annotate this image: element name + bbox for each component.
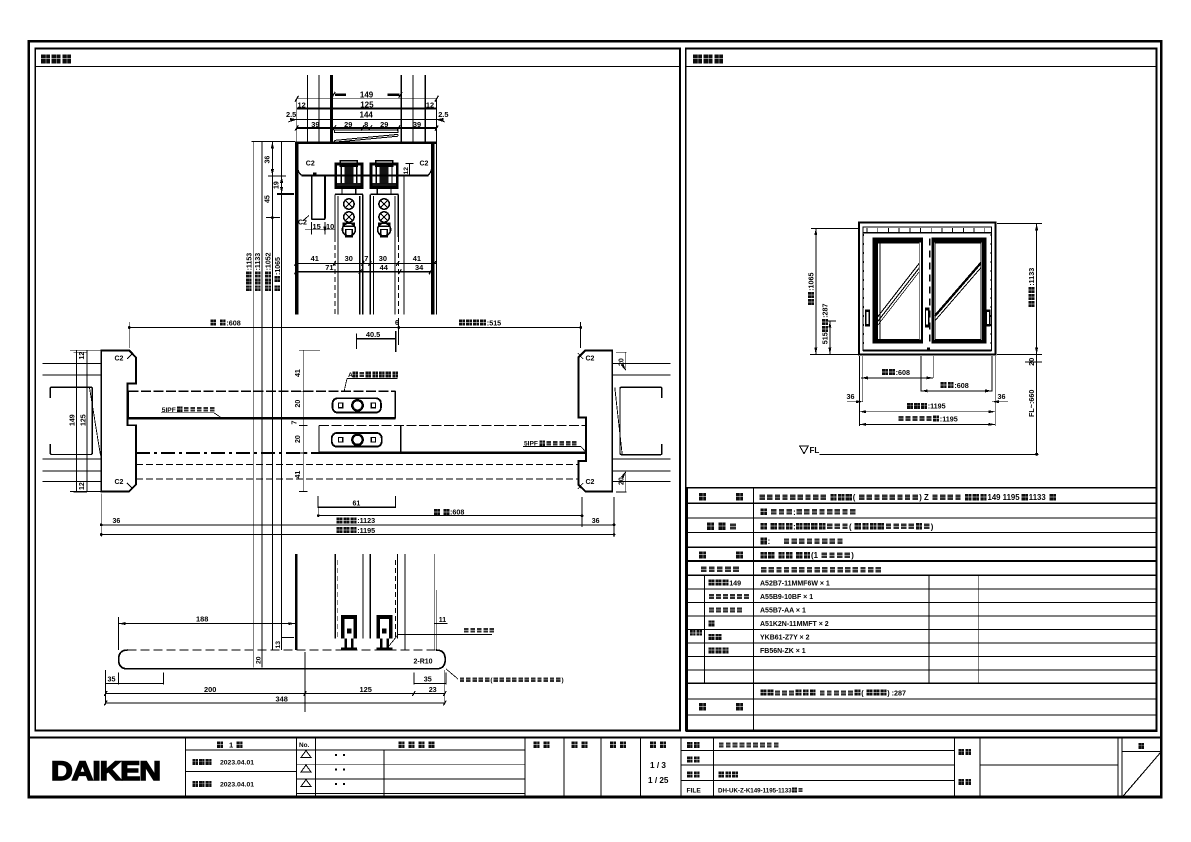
elevation dim 窓高:1065 line [815, 228, 817, 354]
counter extension verticals [105, 670, 107, 705]
elevation top rail band line [863, 232, 991, 234]
right wall lines [612, 363, 670, 365]
svg-text:12: 12 [403, 167, 410, 175]
title block 改訂日 [192, 781, 198, 787]
height dim 19 [277, 193, 294, 195]
left stud diagonal [90, 388, 101, 456]
svg-text:A51K2N-11MMFT × 2: A51K2N-11MMFT × 2 [760, 621, 829, 628]
svg-text:FB56N-ZK × 1: FB56N-ZK × 1 [760, 648, 806, 655]
head box left wall [295, 142, 299, 315]
elevation bottom extension verticals [858, 356, 860, 426]
elevation right door glass [935, 243, 981, 340]
svg-text:FL: FL [810, 446, 820, 455]
svg-text:515: 515 [821, 332, 830, 344]
svg-text:36: 36 [998, 392, 1006, 401]
svg-text:12: 12 [79, 482, 86, 490]
elevation dim 枠外高:1133 line [1036, 224, 1038, 355]
svg-text::: : [793, 522, 796, 531]
title block 名称 [687, 742, 693, 748]
svg-text:2.5: 2.5 [286, 110, 296, 119]
head section bottom dim line 1 [296, 262, 437, 264]
svg-text:35: 35 [424, 674, 432, 683]
svg-text:125: 125 [360, 685, 372, 694]
floor guide under door2 [376, 615, 379, 639]
svg-text:36: 36 [265, 156, 272, 164]
mid vertical dim line with 41 20 7 20 41 [302, 350, 304, 491]
svg-text:149: 149 [70, 414, 77, 426]
hanger roller assembly right [371, 164, 397, 188]
svg-text:36: 36 [847, 392, 855, 401]
spec 品番 sub rows [708, 580, 714, 586]
svg-text:200: 200 [204, 685, 216, 694]
svg-text:44: 44 [380, 263, 389, 272]
spec 備考 content [760, 690, 766, 696]
door2 edge lines [369, 194, 371, 314]
title block left rows [186, 749, 526, 751]
svg-text:348: 348 [276, 694, 288, 703]
svg-text:149 1195: 149 1195 [988, 493, 1021, 502]
svg-text:11: 11 [439, 617, 447, 624]
lower door leaf plan [319, 425, 586, 427]
spec table part-number sub column dividers [704, 575, 706, 683]
svg-text:12: 12 [79, 352, 86, 360]
right view title band line [686, 65, 1157, 67]
svg-text:30: 30 [345, 254, 353, 263]
title block 縮尺 [650, 741, 656, 747]
spec row 引手 content [761, 552, 767, 559]
svg-text:61: 61 [353, 500, 361, 507]
spec row カウンター label [701, 567, 707, 573]
title block 承認 [534, 741, 540, 747]
top dim line 1 [297, 98, 437, 100]
svg-text:FILE: FILE [687, 788, 702, 795]
svg-text:YKB61-Z7Y × 2: YKB61-Z7Y × 2 [760, 635, 810, 642]
height dimension long verticals [252, 141, 295, 143]
svg-text:A55B7-AA × 1: A55B7-AA × 1 [760, 608, 806, 615]
svg-text:2-R10: 2-R10 [414, 659, 433, 666]
elevation dim 36 left [847, 401, 863, 403]
svg-text:): ) [851, 551, 854, 560]
title block 検図 [572, 741, 578, 747]
elevation dim 扉幅:608 left door [861, 377, 933, 379]
head box inner face line right [403, 176, 405, 315]
title block 頁 [1138, 743, 1144, 749]
title block bottom thick line [29, 795, 1162, 798]
counter material label [460, 677, 464, 682]
right jamb plan section [579, 350, 613, 491]
vertical structure lines to counter [295, 554, 298, 650]
svg-text:36: 36 [592, 518, 600, 525]
title block revision triangles [301, 751, 311, 758]
svg-text::1065: :1065 [807, 273, 816, 291]
svg-text:34: 34 [415, 263, 424, 272]
svg-text:36: 36 [113, 518, 121, 525]
svg-text:A52B7-11MMF6W × 1: A52B7-11MMF6W × 1 [760, 581, 830, 588]
spec table row lines [687, 502, 1157, 504]
left view title band line [35, 65, 680, 67]
svg-text:41: 41 [311, 254, 319, 263]
svg-text:41: 41 [413, 254, 421, 263]
elevation frame bottom band [863, 349, 991, 351]
elevation left door glass [878, 243, 920, 340]
door adjuster plates with screws [337, 196, 339, 315]
top sloped furring piece [335, 134, 399, 140]
elevation meeting stile bottom mark [927, 347, 930, 350]
elevation right door glass diagonal stripe [935, 263, 981, 316]
floor guide under door1 [341, 615, 344, 639]
svg-text::1065: :1065 [275, 257, 282, 275]
svg-text::1052: :1052 [266, 252, 273, 270]
svg-text::515: :515 [487, 318, 501, 327]
title block column dividers [185, 738, 187, 797]
svg-text:19: 19 [274, 181, 281, 189]
svg-text:A55B9-10BF × 1: A55B9-10BF × 1 [760, 594, 813, 601]
right view title 正面図 [693, 55, 702, 64]
spec row 型式 content [760, 494, 765, 500]
title block header row line mid cells [525, 749, 681, 751]
svg-text:149: 149 [729, 579, 741, 588]
svg-text:188: 188 [196, 615, 208, 624]
svg-text:20: 20 [618, 477, 625, 485]
elevation dim カウンター幅:1195 [859, 423, 995, 425]
svg-text:A: A [348, 372, 353, 379]
svg-text:C2: C2 [586, 356, 595, 363]
svg-text:) :287: ) :287 [887, 689, 906, 698]
title block outer [29, 738, 1162, 797]
elevation left door glass diagonal stripe [878, 263, 919, 316]
head box ceiling line with chamfers [302, 175, 429, 177]
svg-text:71: 71 [325, 263, 333, 272]
door leaf tops in head section [335, 193, 363, 195]
top rail flat bar [335, 130, 399, 133]
head box top line [295, 142, 436, 145]
elevation FL line [820, 453, 1039, 455]
svg-text:23: 23 [429, 685, 437, 694]
height dim 36 ticks [268, 175, 286, 177]
svg-text:7: 7 [292, 421, 299, 425]
title block right rows [681, 750, 955, 752]
svg-text:C2: C2 [298, 220, 307, 227]
svg-text:): ) [562, 677, 564, 684]
title block name label divider [713, 738, 715, 797]
title block 図名 [687, 772, 693, 778]
elevation left door stiles and rails [872, 237, 877, 343]
svg-text:20: 20 [295, 435, 302, 443]
head box right wall [431, 142, 434, 315]
elevation dim 20 right [1036, 354, 1038, 362]
elevation dim bottom extension to left [810, 353, 859, 355]
svg-text:13: 13 [275, 641, 282, 649]
counter slab [119, 650, 446, 669]
stopper dim 15 10 [311, 222, 313, 235]
svg-text:(1: (1 [811, 551, 819, 560]
svg-text:1 / 3: 1 / 3 [650, 761, 666, 770]
svg-text:): ) [931, 522, 934, 531]
height dim 45 [271, 216, 274, 219]
spec table outer border [687, 488, 1157, 731]
left wall lines [42, 363, 101, 365]
svg-text:1133: 1133 [1029, 493, 1047, 502]
top dim line 4 thick [297, 127, 437, 129]
svg-text:144: 144 [360, 111, 374, 120]
svg-text::1195: :1195 [940, 414, 958, 423]
svg-text:20: 20 [255, 656, 262, 664]
mid bottom extension verticals [100, 494, 102, 538]
svg-text::608: :608 [954, 381, 968, 390]
counter bottom dims 35 200 125 23 348 [106, 683, 164, 685]
svg-text:41: 41 [295, 471, 302, 479]
svg-text:41: 41 [295, 369, 302, 377]
top dim line 3 [297, 118, 437, 120]
svg-text:45: 45 [265, 195, 272, 203]
svg-text::: : [793, 508, 796, 517]
svg-text:7: 7 [364, 254, 368, 263]
hidden rail dashed lines [136, 452, 319, 454]
right view frame (sho-men-zu front view box) [686, 49, 1157, 731]
svg-text::1133: :1133 [1027, 268, 1036, 286]
title block 第1版 cell [217, 741, 223, 747]
svg-text::608: :608 [450, 508, 464, 517]
title block 改訂履歴 header [399, 741, 405, 747]
svg-text:30: 30 [379, 254, 387, 263]
elevation window inner frame line [863, 227, 991, 350]
title block page diagonal [1123, 753, 1161, 797]
top section vertical extension lines [296, 99, 298, 142]
svg-text:No.: No. [299, 742, 310, 749]
mid bottom dim 枠外幅:1195 [101, 534, 614, 536]
svg-text:DH-UK-Z-K149-1195-1133-: DH-UK-Z-K149-1195-1133- [718, 787, 794, 794]
svg-text::: : [768, 537, 771, 546]
spec 品番 label [690, 630, 695, 636]
svg-text:DAIKEN: DAIKEN [51, 756, 160, 786]
elevation left handle [865, 310, 870, 327]
svg-text:FL~:660: FL~:660 [1027, 390, 1036, 417]
svg-text::1133: :1133 [255, 253, 262, 271]
left jamb dim lines 12 149 125 12 [75, 350, 77, 491]
mid bottom dim 61 [318, 506, 396, 508]
svg-text::1195: :1195 [928, 402, 946, 411]
lower door adjuster plate [332, 433, 382, 447]
guide pin label [464, 628, 469, 633]
svg-text:20: 20 [618, 358, 625, 366]
svg-text:C2: C2 [115, 356, 124, 363]
svg-text:2023.04.01: 2023.04.01 [220, 782, 254, 789]
svg-text:C2: C2 [586, 479, 595, 486]
mid dim 40.5 [356, 338, 395, 340]
mid bottom dim 扉幅:608 line [318, 515, 582, 517]
upper door leaf plan [128, 390, 395, 392]
svg-text::608: :608 [226, 318, 240, 327]
spec row 引手 label [699, 551, 706, 558]
svg-text::608: :608 [896, 368, 910, 377]
svg-text:2023.04.01: 2023.04.01 [220, 760, 254, 767]
right C-channel stud [620, 387, 662, 454]
spec row 仕上げ content lines [761, 509, 767, 516]
svg-text:20: 20 [295, 400, 302, 408]
elevation right door stiles and rails [931, 237, 934, 343]
head section bottom dim line 2 [296, 271, 431, 273]
title block 施主 [958, 779, 964, 785]
svg-text:15: 15 [313, 222, 321, 231]
upper door adjuster plate [333, 398, 381, 412]
left view title 断面図 [41, 55, 50, 64]
dim 188 [119, 623, 296, 625]
title block 制定日 [192, 759, 198, 765]
top dim 149 thick segments [335, 93, 346, 96]
top section wall stud verticals [307, 75, 309, 141]
svg-text:) Z: ) Z [919, 493, 929, 502]
svg-text:(: ( [849, 522, 852, 531]
svg-text::1123: :1123 [357, 516, 375, 525]
title block 件名 [958, 749, 964, 755]
left jamb plan section [101, 350, 136, 491]
svg-text:20: 20 [1027, 358, 1036, 366]
svg-text::287: :287 [821, 304, 830, 318]
svg-text:2.5: 2.5 [438, 110, 448, 119]
dim 13 rotated [282, 637, 294, 639]
left stopper block [312, 175, 325, 219]
mid bottom dim 内法幅:1123 [101, 524, 614, 526]
svg-text::1195: :1195 [357, 526, 375, 535]
svg-text:10: 10 [326, 222, 334, 231]
svg-text::1153: :1153 [246, 253, 253, 271]
door1 edge lines [362, 194, 364, 314]
top dim line 2 thick [297, 108, 437, 110]
elevation FL marker [800, 446, 808, 453]
hanger roller assembly left [336, 164, 362, 188]
elevation dim 扉幅:608 right door [921, 390, 992, 392]
svg-text:(: ( [853, 493, 856, 502]
left C-channel stud [50, 387, 92, 454]
spec row 型式 label [699, 493, 706, 500]
elevation dim 枠外幅:1195 [859, 411, 995, 413]
right stud diagonal [615, 388, 623, 456]
spec 備考 label [699, 703, 706, 710]
svg-text:40.5: 40.5 [366, 330, 380, 339]
right jamb dim 20 top [616, 351, 626, 353]
elevation dim FL~:660 [1036, 362, 1038, 454]
elevation center handle [925, 308, 930, 328]
elevation window outer frame [859, 223, 996, 355]
svg-text:1 / 25: 1 / 25 [648, 776, 669, 785]
elevation frame inner dashed verticals [863, 234, 865, 350]
height labels rotated [246, 285, 252, 291]
title block 作成 [610, 741, 616, 747]
title block revision sub divider [383, 750, 385, 797]
svg-text:C2: C2 [115, 479, 124, 486]
spec row カウンター content [761, 567, 766, 573]
svg-text:35: 35 [108, 674, 116, 683]
right jamb dim 20 bottom [625, 472, 627, 493]
spec row 仕上げ label [707, 523, 714, 530]
head box 12 vertical dim [409, 164, 411, 176]
svg-text:C2: C2 [420, 161, 429, 168]
svg-text:125: 125 [80, 414, 87, 426]
elevation right handle [986, 310, 991, 327]
title block 品番 [687, 757, 693, 763]
svg-text:C2: C2 [306, 161, 315, 168]
left view frame (dan-men-zu section view box) [35, 49, 680, 731]
mid section top dim line [129, 327, 580, 329]
elevation dim 36 right [992, 401, 1008, 403]
elevation top rail hatch ticks [866, 228, 868, 232]
elevation dim 515手高:287 line [829, 321, 831, 355]
spec table label column divider [753, 488, 755, 731]
